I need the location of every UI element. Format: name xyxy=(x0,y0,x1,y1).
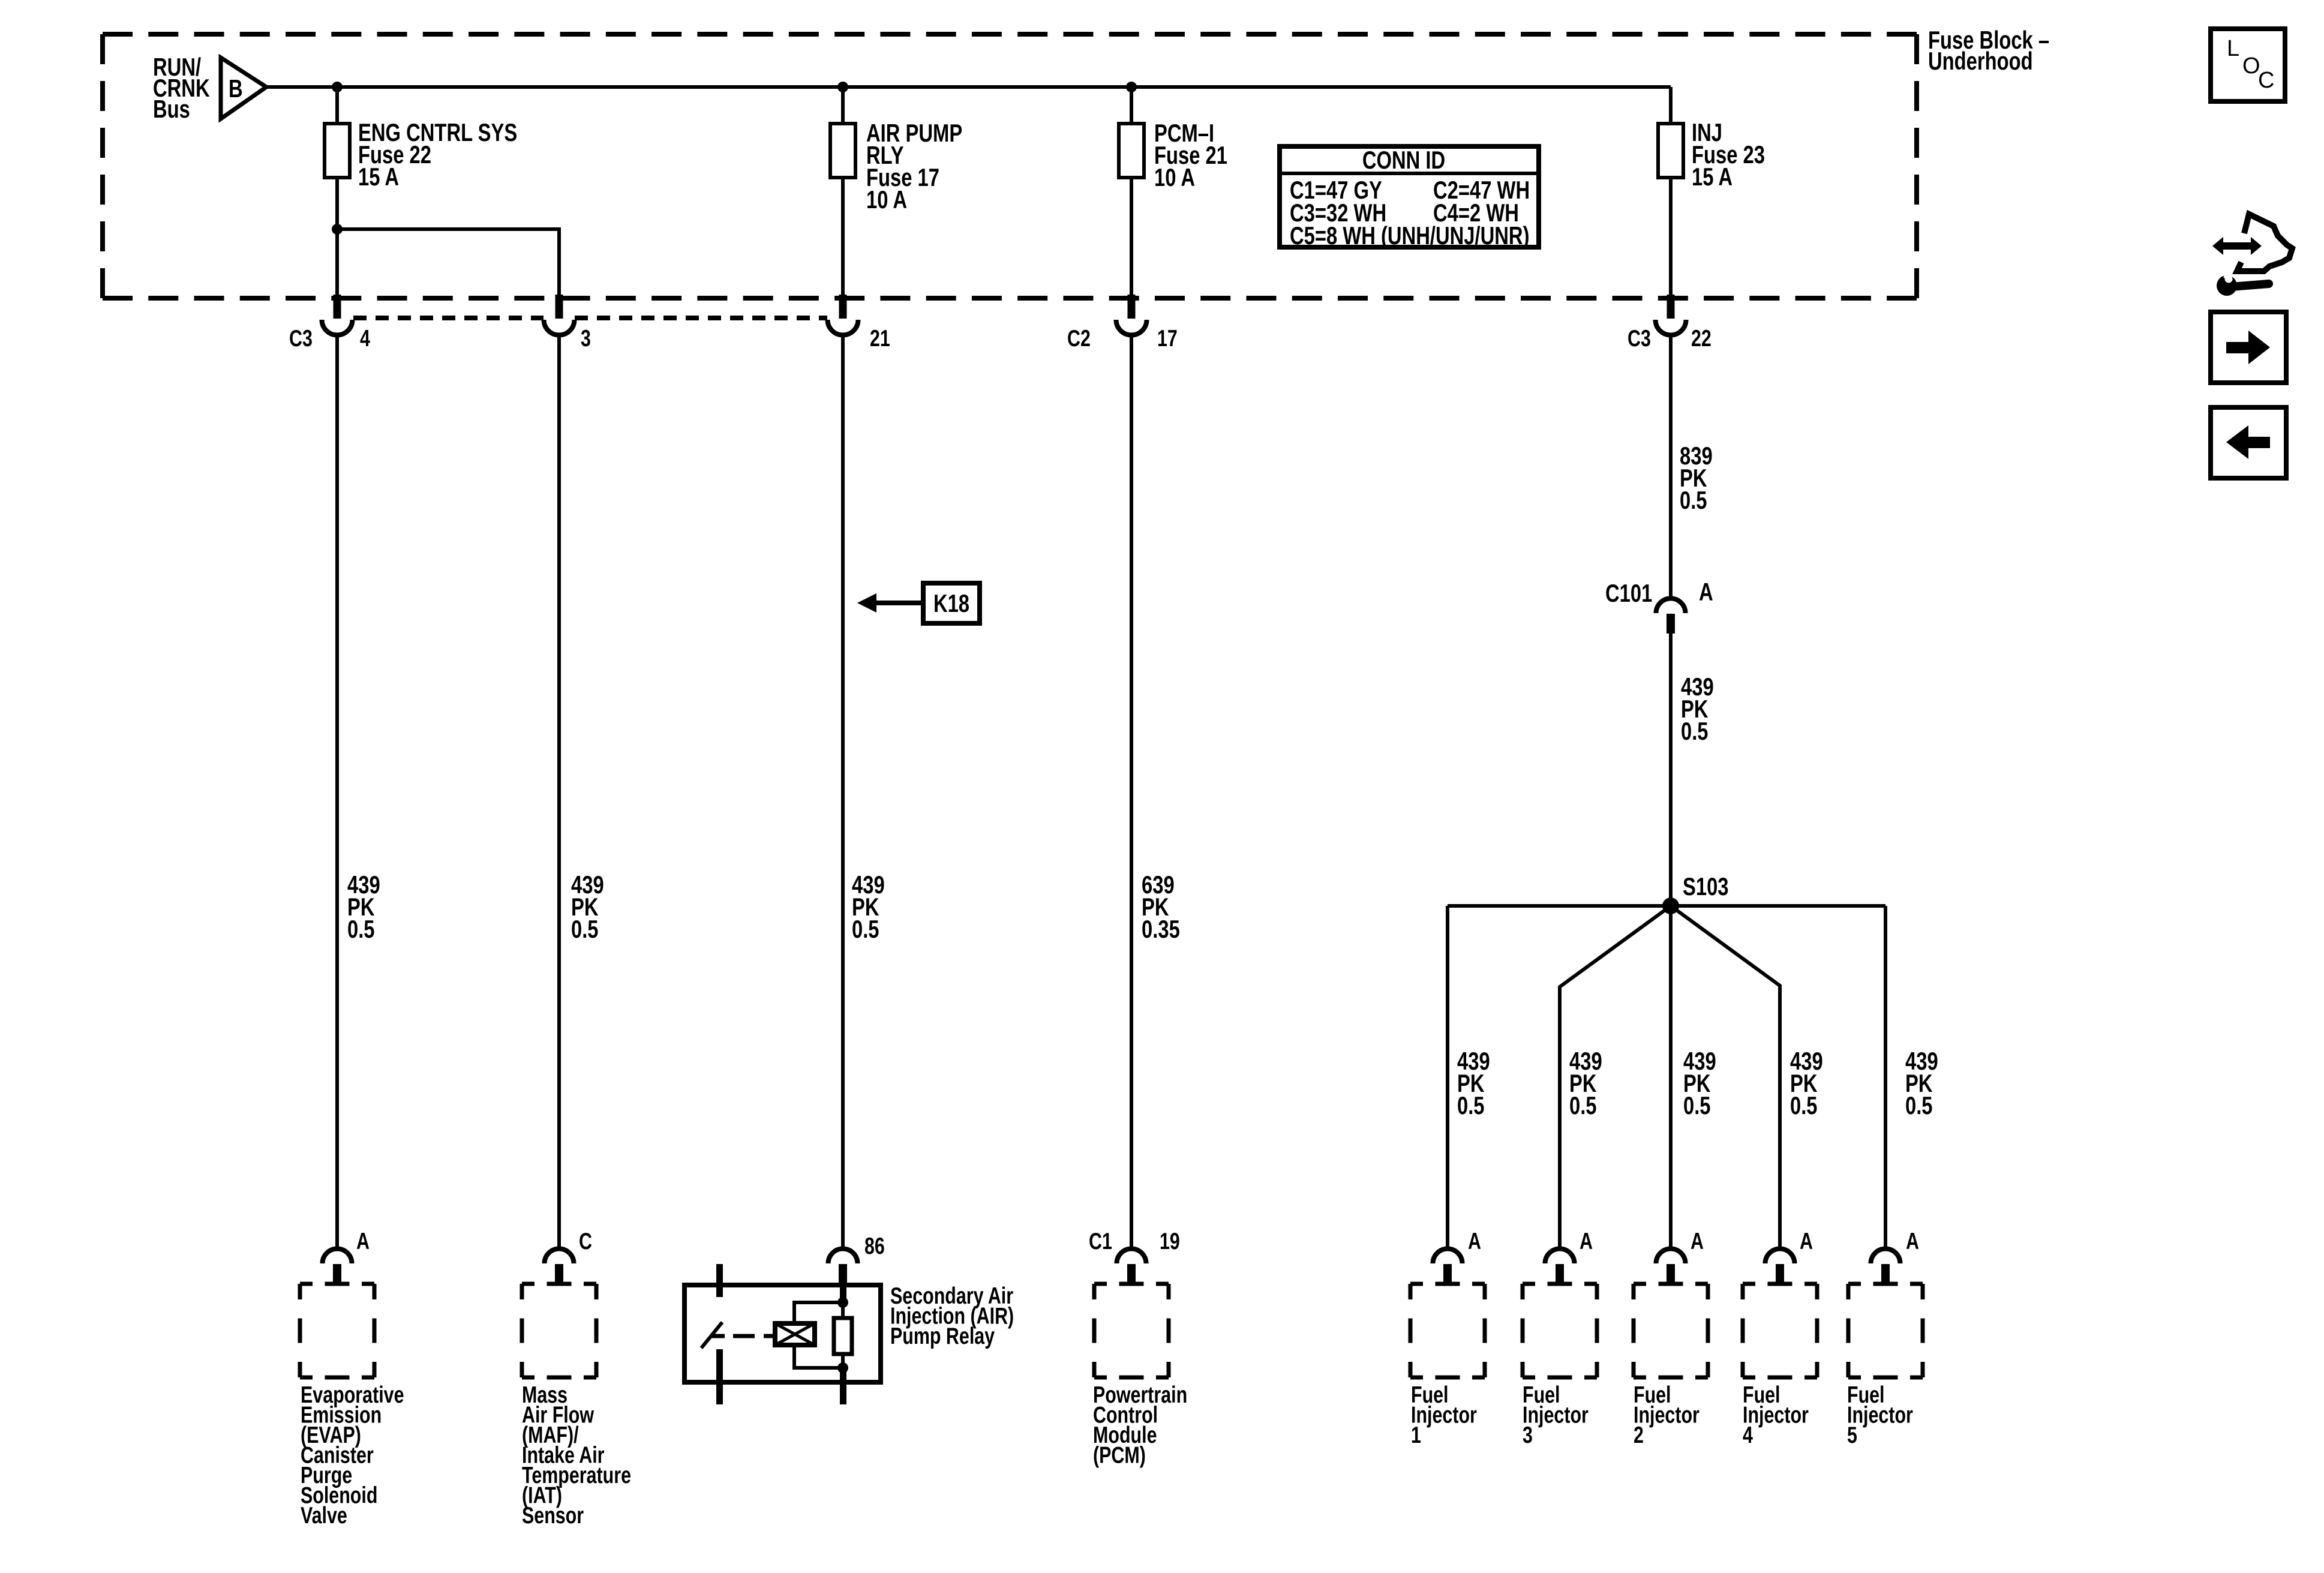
svg-text:0.5: 0.5 xyxy=(1683,1091,1711,1119)
connector pin A at fuel injector 3 xyxy=(1545,1249,1575,1285)
wire to fuel injector 4 (diagonal) xyxy=(1671,906,1780,1249)
svg-text:0.35: 0.35 xyxy=(1142,915,1180,943)
label wire 439 PK 0.5 (relay) xyxy=(852,870,885,943)
connector pin A at fuel injector 1 xyxy=(1433,1249,1463,1285)
PCM box xyxy=(1094,1284,1169,1377)
svg-text:22: 22 xyxy=(1691,326,1712,352)
svg-text:Underhood: Underhood xyxy=(1928,47,2033,75)
label Fuel Injector 4 xyxy=(1743,1382,1809,1448)
svg-text:A: A xyxy=(1906,1229,1919,1254)
label Fuel Injector 5 xyxy=(1847,1382,1913,1448)
svg-text:A: A xyxy=(356,1229,370,1254)
relay resistor xyxy=(834,1318,852,1354)
connector C1 pin 19 at PCM xyxy=(1117,1249,1146,1285)
svg-text:19: 19 xyxy=(1160,1229,1180,1254)
svg-text:0.5: 0.5 xyxy=(1905,1091,1933,1119)
connector pin 86 at AIR pump relay xyxy=(828,1249,858,1285)
label wire 439 PK 0.5 (inj 5) xyxy=(1905,1047,1938,1119)
wire to fuel injector 2 xyxy=(1669,906,1673,1249)
relay coil wire vertical xyxy=(840,1264,846,1302)
svg-text:4: 4 xyxy=(1743,1422,1753,1448)
wire 439 PK to MAF/IAT sensor xyxy=(557,335,561,1249)
svg-text:Bus: Bus xyxy=(153,95,190,123)
connector C3 pin 4 (fuse block) xyxy=(322,295,353,335)
connector C3 pin 3 (fuse block) xyxy=(544,295,575,335)
svg-text:3: 3 xyxy=(581,326,591,352)
svg-text:L: L xyxy=(2227,36,2239,61)
dotted connector group line C3 xyxy=(353,316,827,320)
relay switch pin stub top xyxy=(716,1264,723,1297)
svg-text:B: B xyxy=(229,74,243,103)
svg-text:15 A: 15 A xyxy=(1692,163,1733,191)
wire: branch to MAF drop xyxy=(337,229,559,296)
svg-text:2: 2 xyxy=(1634,1422,1644,1448)
connector C3 pin 22 (fuse block) xyxy=(1656,295,1686,335)
label wire 439 PK 0.5 (EVAP) xyxy=(347,870,380,943)
svg-text:3: 3 xyxy=(1523,1422,1533,1448)
connector pin A at EVAP valve xyxy=(323,1249,352,1285)
svg-text:A: A xyxy=(1699,578,1713,606)
connector pin C at MAF/IAT sensor xyxy=(545,1249,574,1285)
wire to fuel injector 3 (diagonal) xyxy=(1560,906,1671,1249)
svg-text:S103: S103 xyxy=(1683,872,1729,900)
label Secondary Air Injection (AIR) Pump Relay xyxy=(890,1283,1014,1349)
wire to fuel injector 1 xyxy=(1446,906,1449,1249)
fuse ENG CNTRL SYS Fuse 22 15A xyxy=(325,124,350,178)
svg-text:5: 5 xyxy=(1847,1422,1857,1448)
power source triangle B xyxy=(221,58,266,119)
svg-text:A: A xyxy=(1468,1229,1481,1254)
K18 callout box with arrow xyxy=(857,583,980,623)
svg-text:A: A xyxy=(1580,1229,1593,1254)
wire 839 PK from fuse 23 to C101 xyxy=(1669,335,1673,599)
label wire 639 PK 0.35 xyxy=(1142,870,1180,943)
label Powertrain Control Module (PCM) xyxy=(1093,1382,1187,1469)
node: bus junction at fuse 21 xyxy=(1126,82,1137,92)
relay actuating dashed link xyxy=(711,1334,777,1338)
wire: fuse 23 output down to connector C3-22 xyxy=(1669,178,1673,296)
relay switch contact xyxy=(701,1322,722,1348)
svg-text:CONN ID: CONN ID xyxy=(1362,146,1445,174)
label wire 439 PK 0.5 (inj 3) xyxy=(1569,1047,1602,1119)
svg-text:C: C xyxy=(2258,68,2274,93)
svg-text:1: 1 xyxy=(1411,1422,1421,1448)
svg-text:0.5: 0.5 xyxy=(1457,1091,1485,1119)
label wire 439 PK 0.5 (inj 1) xyxy=(1457,1047,1490,1119)
svg-text:0.5: 0.5 xyxy=(1680,486,1707,514)
node: coil bottom junction xyxy=(837,1362,848,1373)
svg-text:Sensor: Sensor xyxy=(522,1503,584,1529)
connector pin A at fuel injector 5 xyxy=(1871,1249,1900,1285)
relay K - Secondary Air Injection (AIR) Pump Relay xyxy=(684,1264,881,1404)
vehicle service icon (double arrow, outline, wrench) xyxy=(2212,214,2292,296)
node: bus junction at fuse 17 xyxy=(837,82,848,92)
node: bus junction at fuse 22 xyxy=(332,82,343,92)
coil parallel connections xyxy=(794,1302,843,1323)
label Fuel Injector 1 xyxy=(1411,1382,1477,1448)
svg-text:K18: K18 xyxy=(933,589,969,617)
fuel injector 4 box xyxy=(1743,1284,1817,1377)
fuel injector 5 box xyxy=(1848,1284,1923,1377)
EVAP canister purge solenoid valve box xyxy=(300,1284,374,1377)
svg-text:21: 21 xyxy=(870,326,890,352)
fuel injector 2 box xyxy=(1634,1284,1708,1377)
svg-text:A: A xyxy=(1691,1229,1704,1254)
svg-text:C: C xyxy=(579,1229,592,1254)
svg-text:15 A: 15 A xyxy=(358,163,399,191)
wire: fuse 21 output down to connector C2-17 xyxy=(1130,178,1133,296)
wire: bus drop to fuse 22 xyxy=(335,87,339,124)
svg-text:0.5: 0.5 xyxy=(852,915,879,943)
svg-text:10 A: 10 A xyxy=(1154,163,1195,191)
label wire 439 PK 0.5 (below C101) xyxy=(1681,673,1714,745)
svg-text:C3: C3 xyxy=(289,326,313,352)
forward arrow legend box xyxy=(2211,312,2286,383)
label wire 839 PK 0.5 xyxy=(1680,442,1713,514)
fuse INJ Fuse 23 15A xyxy=(1658,124,1683,178)
wire 439 PK from C101 to S103 xyxy=(1669,634,1673,906)
splice S103 xyxy=(1662,872,1729,914)
svg-text:0.5: 0.5 xyxy=(1681,717,1709,745)
connector C3 pin 21 (fuse block) xyxy=(828,295,858,335)
MAF/IAT sensor box xyxy=(522,1284,596,1377)
node: coil top junction xyxy=(837,1297,848,1308)
svg-text:C5=8 WH (UNH/UNJ/UNR): C5=8 WH (UNH/UNJ/UNR) xyxy=(1290,221,1530,250)
label wire 439 PK 0.5 (inj 4) xyxy=(1790,1047,1823,1119)
CONN ID table xyxy=(1280,146,1539,250)
svg-text:0.5: 0.5 xyxy=(347,915,375,943)
svg-text:C2: C2 xyxy=(1067,326,1091,352)
relay coil pin stub bottom xyxy=(840,1368,846,1404)
wire: fuse 17 output down to connector 21 xyxy=(841,178,845,296)
wire 439 PK to EVAP solenoid xyxy=(335,335,339,1249)
wire: bus drop to fuse 17 xyxy=(841,87,845,124)
svg-text:4: 4 xyxy=(360,326,370,352)
svg-text:C101: C101 xyxy=(1605,579,1652,607)
wire: bus corner drop to fuse 23 xyxy=(1669,87,1673,124)
connector C101 pin A xyxy=(1605,578,1713,634)
svg-text:C3: C3 xyxy=(1628,326,1651,352)
svg-text:A: A xyxy=(1800,1229,1813,1254)
label RUN/CRNK Bus xyxy=(153,53,210,123)
connector pin A at fuel injector 4 xyxy=(1765,1249,1795,1285)
svg-text:0.5: 0.5 xyxy=(571,915,599,943)
wire: fuse 22 output down to connector C3-4 xyxy=(335,178,339,296)
connector C2 pin 17 (fuse block) xyxy=(1116,295,1147,335)
label Fuel Injector 2 xyxy=(1634,1382,1700,1448)
back arrow legend box xyxy=(2211,407,2286,478)
svg-text:C1: C1 xyxy=(1089,1229,1112,1254)
svg-text:0.5: 0.5 xyxy=(1790,1091,1818,1119)
fuse block underhood dashed boundary xyxy=(103,34,1917,298)
svg-text:0.5: 0.5 xyxy=(1569,1091,1597,1119)
fuel injector 1 box xyxy=(1410,1284,1485,1377)
svg-text:Pump Relay: Pump Relay xyxy=(890,1323,995,1349)
wire 639 PK to PCM xyxy=(1130,335,1133,1249)
label Evaporative Emission (EVAP) Canister Purge Solenoid Valve xyxy=(301,1382,404,1529)
svg-text:(PCM): (PCM) xyxy=(1093,1443,1146,1469)
label wire 439 PK 0.5 (inj 2) xyxy=(1683,1047,1716,1119)
label Fuse Block - Underhood xyxy=(1928,26,2049,75)
label Mass Air Flow (MAF)/ Intake Air Temperature (IAT) Sensor xyxy=(522,1382,631,1529)
wire: bus drop to fuse 21 xyxy=(1130,87,1133,124)
relay switch pin stub bottom xyxy=(716,1349,723,1404)
label wire 439 PK 0.5 (MAF) xyxy=(571,870,604,943)
svg-text:10 A: 10 A xyxy=(866,185,907,214)
wire: RUN/CRNK bus horizontal xyxy=(266,85,1671,89)
fuse PCM-I Fuse 21 10A xyxy=(1119,124,1144,178)
wire to fuel injector 5 xyxy=(1884,906,1887,1249)
label Fuel Injector 3 xyxy=(1523,1382,1589,1448)
wire 439 PK to AIR pump relay xyxy=(841,335,845,1249)
fuse AIR PUMP RLY Fuse 17 10A xyxy=(830,124,855,178)
wire: S103 distribution bus xyxy=(1448,904,1885,908)
fuel injector 3 box xyxy=(1523,1284,1597,1377)
svg-text:17: 17 xyxy=(1157,326,1178,352)
connector pin A at fuel injector 2 xyxy=(1656,1249,1686,1285)
relay coil (box with X) xyxy=(775,1323,815,1345)
node: branch junction to MAF feed xyxy=(332,224,343,235)
LOC legend box xyxy=(2211,29,2285,101)
svg-text:86: 86 xyxy=(864,1233,885,1259)
svg-text:Valve: Valve xyxy=(301,1503,347,1529)
